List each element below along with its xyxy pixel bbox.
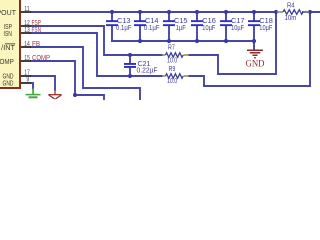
svg-text:14: 14 <box>24 41 30 48</box>
svg-text:FB: FB <box>32 39 40 48</box>
svg-text:0.1µF: 0.1µF <box>144 25 160 32</box>
svg-text:COMP: COMP <box>0 59 14 66</box>
svg-text:R9: R9 <box>169 66 176 73</box>
svg-text:GND: GND <box>246 60 265 70</box>
svg-text:COMP: COMP <box>32 53 50 62</box>
svg-text:0.22µF: 0.22µF <box>137 68 158 75</box>
svg-text:C18: C18 <box>259 18 273 25</box>
svg-text:ISP: ISP <box>4 24 13 31</box>
svg-text:ISN: ISN <box>4 31 13 38</box>
svg-text:13: 13 <box>24 27 30 34</box>
svg-text:POUT: POUT <box>0 10 17 17</box>
svg-text:R4: R4 <box>287 2 295 9</box>
svg-text:/INT: /INT <box>1 45 16 52</box>
svg-text:17: 17 <box>24 70 30 77</box>
svg-text:15: 15 <box>24 55 30 62</box>
svg-text:C15: C15 <box>174 18 188 25</box>
svg-text:C13: C13 <box>117 18 131 25</box>
svg-text:10m: 10m <box>285 15 297 22</box>
svg-text:10µF: 10µF <box>202 25 215 32</box>
svg-text:FSN: FSN <box>32 25 42 34</box>
svg-text:10.0: 10.0 <box>167 78 177 85</box>
svg-text:C17: C17 <box>231 18 245 25</box>
svg-text:1µF: 1µF <box>176 25 186 32</box>
svg-text:9: 9 <box>26 77 29 84</box>
svg-text:R7: R7 <box>168 44 175 51</box>
svg-text:0.1µF: 0.1µF <box>116 25 132 32</box>
svg-text:GND: GND <box>3 73 14 80</box>
svg-text:C16: C16 <box>202 18 216 25</box>
svg-text:GND: GND <box>3 80 14 87</box>
svg-text:10µF: 10µF <box>231 25 244 32</box>
svg-text:11: 11 <box>24 6 30 13</box>
svg-text:10.0: 10.0 <box>167 58 177 65</box>
svg-text:10µF: 10µF <box>259 25 272 32</box>
svg-text:12: 12 <box>24 20 30 27</box>
svg-text:C14: C14 <box>145 18 159 25</box>
